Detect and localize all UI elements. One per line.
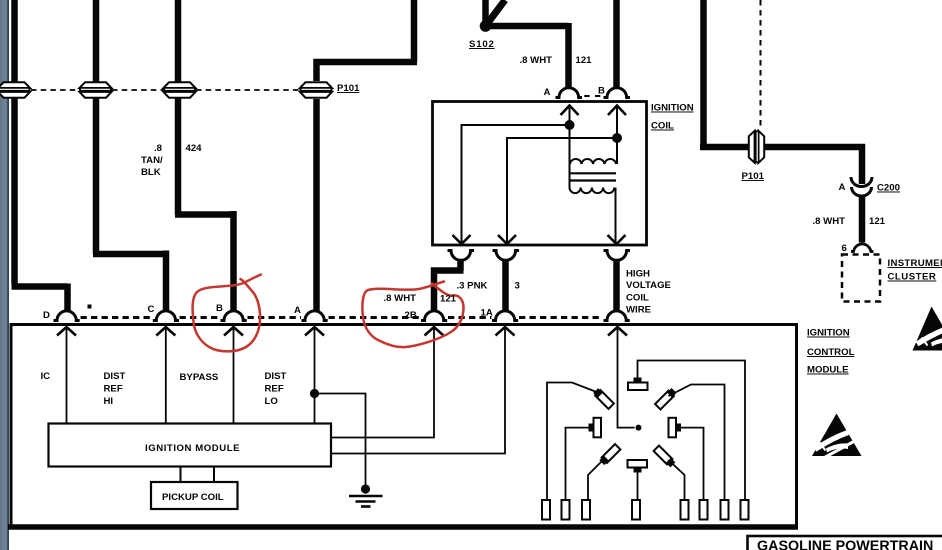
svg-text:CLUSTER: CLUSTER (888, 272, 937, 283)
ICM pin C arrow (156, 327, 175, 336)
distributor lead S (637, 473, 639, 501)
ICM connector dashed line (81, 316, 604, 319)
distributor center node (636, 425, 642, 431)
splice S102 wires (483, 0, 569, 89)
ICM terminal 2B dome (421, 311, 447, 321)
distributor lead SW (588, 460, 603, 500)
in-line connector oval 3 (163, 82, 196, 97)
wire to coil terminal B (613, 0, 620, 89)
distributor terminal lugs (542, 500, 749, 520)
svg-text:HI: HI (104, 396, 114, 407)
svg-text:121: 121 (869, 216, 886, 227)
splice S102 dot (480, 20, 492, 32)
ICM terminal B dome (221, 311, 247, 321)
coil pin 1 arrow (down) (453, 235, 471, 244)
in-line connector oval 2 (79, 82, 112, 97)
svg-text:C: C (148, 304, 155, 315)
svg-text:.8 WHT: .8 WHT (813, 216, 846, 227)
coil internal wire B to pin 2 (507, 138, 617, 243)
coil terminal A dome (556, 88, 583, 98)
svg-text:GASOLINE POWERTRAIN: GASOLINE POWERTRAIN (757, 539, 933, 550)
distributor lead NE (669, 385, 725, 501)
svg-text:S102: S102 (469, 39, 495, 50)
svg-text:BYPASS: BYPASS (180, 372, 219, 383)
svg-text:.8 WHT: .8 WHT (384, 293, 417, 304)
coil pin 3 arrow (down, high voltage) (608, 235, 626, 244)
ignition coil box (433, 102, 647, 246)
ground dot (361, 484, 370, 493)
distributor contact NE (655, 388, 677, 410)
ICM pin B arrow (224, 327, 243, 336)
right feed wire through P101 to C200 (700, 0, 865, 243)
svg-text:INSTRUMENT: INSTRUMENT (888, 258, 942, 269)
distributor contact SW (599, 444, 620, 465)
C200 connector (851, 177, 872, 196)
svg-text:REF: REF (104, 384, 123, 395)
svg-text:D: D (43, 310, 50, 321)
svg-text:PICKUP COIL: PICKUP COIL (162, 492, 224, 503)
pickup coil box (151, 482, 238, 509)
ICM pin 2B arrow (425, 327, 444, 336)
svg-text:.8: .8 (154, 143, 163, 154)
svg-text:A: A (294, 305, 301, 316)
ICM terminal 1A dome (492, 311, 518, 321)
coil output cup 2 (493, 251, 520, 261)
svg-text:DIST: DIST (265, 371, 287, 382)
ICM bottom heavy edge (8, 524, 798, 530)
gasoline powertrain title box (748, 536, 942, 550)
red annotation circle around terminal 2B (362, 282, 463, 348)
svg-text:COIL: COIL (651, 121, 674, 132)
svg-text:3: 3 (515, 281, 520, 292)
in-line connector oval 1 (0, 82, 31, 97)
instrument cluster dashed box (842, 255, 880, 302)
svg-text:424: 424 (186, 143, 203, 154)
svg-text:IGNITION MODULE: IGNITION MODULE (145, 443, 240, 454)
distributor lead NW (547, 383, 601, 501)
transformer T1 secondary (570, 188, 616, 243)
wire 3 (.8 TAN/BLK 424, to terminal B) (175, 0, 234, 312)
coil internal node B dot (612, 133, 622, 143)
svg-text:121: 121 (576, 55, 593, 66)
svg-text:LO: LO (265, 396, 279, 407)
wire coil pin2 to ICM 1A (502, 260, 509, 313)
svg-text:COIL: COIL (626, 292, 649, 303)
svg-text:A: A (839, 182, 846, 193)
coil pin 2 arrow (down) (498, 235, 516, 244)
svg-text:HIGH: HIGH (626, 269, 650, 280)
coil output cup 1 (448, 251, 475, 261)
coil internal node A dot (565, 120, 575, 130)
svg-text:VOLTAGE: VOLTAGE (626, 280, 672, 291)
distributor lead SE (669, 460, 685, 500)
svg-text:IGNITION: IGNITION (651, 103, 694, 114)
red annotation circle around terminal B (193, 275, 261, 352)
asterisk mark (88, 305, 92, 309)
high voltage coil wire (613, 260, 620, 313)
distributor lead E (681, 428, 704, 500)
ignition control module box (11, 325, 797, 528)
coil output cup 3 (604, 251, 631, 261)
dashed harness line (top) (31, 89, 299, 91)
svg-text:WIRE: WIRE (626, 305, 652, 316)
svg-text:121: 121 (440, 294, 457, 305)
svg-text:B: B (598, 86, 605, 97)
svg-text:A: A (544, 87, 551, 98)
ICM pin 1A arrow (496, 327, 515, 336)
ICM pin D arrow (57, 327, 76, 336)
svg-text:P101: P101 (742, 171, 765, 182)
svg-text:DIST: DIST (104, 371, 126, 382)
svg-text:CONTROL: CONTROL (807, 347, 855, 358)
distributor contact SE (654, 446, 676, 468)
transformer T1 core (570, 173, 616, 180)
distributor contact E (669, 418, 677, 438)
svg-text:6: 6 (842, 243, 847, 254)
distributor contact N (628, 383, 648, 391)
svg-text:P101: P101 (337, 83, 360, 94)
ICM terminal A dome (302, 311, 328, 321)
wire 2 (to terminal C) (93, 0, 166, 312)
dashed drop to P101 (right) (760, 0, 762, 130)
ground symbol (349, 496, 383, 507)
viewer edge bar (0, 0, 9, 550)
ICM pin A arrow (305, 327, 324, 336)
distributor contact S (628, 460, 648, 468)
distributor lead N (638, 361, 746, 501)
node on DIST REF LO line (310, 389, 319, 398)
ICM terminal D dome (54, 311, 80, 321)
in-line connector P101 (right, vertical) (749, 130, 764, 163)
distributor contact NW (593, 388, 614, 409)
ICM high voltage dome (604, 311, 630, 321)
svg-text:IGNITION: IGNITION (807, 328, 850, 339)
wire coil pin1 to ICM 2B (431, 260, 464, 313)
coil pin A arrow (561, 106, 579, 116)
wire 1 (left vertical, to terminal D) (12, 0, 68, 312)
instrument cluster pin 6 dome (851, 244, 874, 251)
coil terminal B dome (604, 88, 631, 98)
svg-text:MODULE: MODULE (807, 365, 849, 376)
ICM high voltage arrow (608, 327, 627, 336)
svg-text:1A: 1A (481, 308, 493, 319)
in-line connector P101 (left) (300, 82, 333, 97)
ESD warning symbol (upper right) (913, 307, 942, 351)
coil pin B arrow (608, 106, 626, 116)
svg-text:.3 PNK: .3 PNK (457, 281, 488, 292)
wire node to ground (315, 394, 366, 488)
svg-text:C200: C200 (877, 183, 900, 194)
svg-text:2B: 2B (405, 310, 417, 321)
pickup coil links (181, 467, 215, 483)
transformer T1 primary (570, 125, 618, 188)
svg-text:TAN/: TAN/ (141, 155, 163, 166)
svg-text:IC: IC (41, 371, 51, 382)
distributor lead W (566, 428, 591, 500)
svg-text:BLK: BLK (141, 167, 161, 178)
ESD warning symbol (lower) (812, 414, 862, 458)
svg-text:B: B (216, 303, 223, 314)
ICM terminal C dome (153, 311, 179, 321)
wire 4 (through P101 to terminal A) (314, 0, 418, 312)
dashes between A and B (584, 95, 601, 97)
ignition module box (49, 424, 332, 467)
distributor contact W (594, 418, 602, 438)
svg-text:REF: REF (265, 384, 284, 395)
coil internal wire A to pin 1 (462, 125, 570, 243)
svg-text:.8 WHT: .8 WHT (520, 55, 553, 66)
